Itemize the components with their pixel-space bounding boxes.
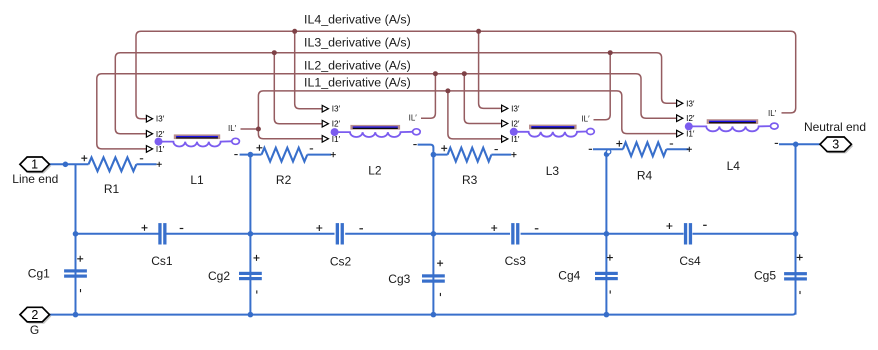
svg-text:I3′: I3′ — [332, 105, 341, 114]
pin L3 input I1 — [502, 135, 520, 144]
wire port1 to R1 — [49, 163, 89, 165]
label Cg4 + — [607, 255, 613, 261]
junction rail D top — [604, 151, 610, 157]
svg-text:Cs3: Cs3 — [505, 254, 527, 268]
pin L1 left port — [155, 138, 163, 146]
svg-text:R4: R4 — [637, 168, 653, 182]
svg-text:I1′: I1′ — [511, 135, 520, 144]
svg-text:I1′: I1′ — [332, 135, 341, 144]
junction port1/rail A — [63, 162, 69, 168]
pin L4 left terminal + — [687, 147, 692, 152]
label Cs4 - — [703, 224, 707, 226]
svg-text:Cs4: Cs4 — [679, 254, 701, 268]
svg-text:Neutral end: Neutral end — [804, 120, 866, 134]
label R1 - — [140, 158, 143, 160]
label R3 + — [441, 145, 447, 151]
wire IL1 drop to L3 input I1' — [448, 91, 502, 139]
wire rail3 to Cs3 — [433, 233, 510, 235]
junction mid/rail D — [604, 231, 610, 237]
wire IL3 drop to L2 input I2' — [274, 53, 322, 124]
svg-text:G: G — [30, 323, 39, 337]
wire IL4 drop to L3 input I3' — [479, 31, 502, 108]
pin L1 left terminal + — [157, 162, 162, 167]
svg-text:Cg3: Cg3 — [388, 272, 410, 286]
wire L1 output IL' to junction — [241, 128, 259, 130]
label Cg2 - — [256, 290, 258, 293]
junction IL4/L2 drop — [292, 29, 297, 34]
wire rail node B (R2/Cg2) — [249, 155, 251, 315]
wire rail node E (Cg5/port3) — [795, 144, 797, 314]
pin L3 input I2 — [502, 120, 520, 129]
svg-text:R1: R1 — [104, 182, 120, 196]
svg-text:I1′: I1′ — [686, 130, 695, 139]
svg-text:Cs2: Cs2 — [330, 255, 352, 269]
label L4 right - — [775, 142, 778, 144]
capacitor Cg5 — [784, 272, 807, 280]
pin L3 input I3 — [502, 104, 520, 113]
wire mid rail1 to Cs1 — [76, 233, 159, 235]
pin L2 input I3 — [322, 105, 340, 114]
label Cs3 + — [491, 225, 497, 231]
svg-text:Cg4: Cg4 — [558, 269, 580, 283]
label Cg3 - — [439, 293, 441, 296]
svg-text:I2′: I2′ — [156, 130, 165, 139]
svg-text:I3′: I3′ — [511, 104, 520, 113]
junction mid/rail C — [431, 231, 437, 237]
svg-text:Cs1: Cs1 — [151, 254, 173, 268]
port 3 (Neutral end) — [820, 137, 853, 153]
svg-text:IL3_derivative (A/s): IL3_derivative (A/s) — [304, 35, 411, 49]
svg-text:IL′: IL′ — [581, 115, 590, 124]
svg-text:IL2_derivative (A/s): IL2_derivative (A/s) — [304, 59, 411, 73]
pin L2 left terminal + — [331, 152, 336, 157]
label R4 - — [670, 143, 673, 145]
wire L3 right terminal to R4 — [593, 148, 623, 150]
junction rail C top — [431, 152, 437, 158]
label L1 right - — [234, 154, 237, 156]
wire Cs2 to rail3 — [345, 233, 433, 235]
pin L4 input I2 — [677, 114, 695, 123]
svg-text:IL4_derivative (A/s): IL4_derivative (A/s) — [304, 12, 411, 26]
label R4 + — [616, 141, 622, 147]
svg-text:L4: L4 — [727, 159, 741, 173]
capacitor Cg1 — [64, 269, 87, 277]
pin marker rail D — [606, 150, 610, 154]
junction IL2/L2 source — [433, 71, 438, 76]
svg-text:Line end: Line end — [12, 172, 58, 186]
svg-text:3: 3 — [832, 138, 839, 152]
junction gnd/rail C — [431, 312, 437, 318]
junction gnd/rail B — [248, 312, 254, 318]
junction IL1/L3 drop — [445, 88, 450, 93]
svg-text:L1: L1 — [190, 173, 204, 187]
junction gnd/rail D — [604, 312, 610, 318]
wire rail4 to Cs4 — [606, 233, 683, 235]
svg-text:I2′: I2′ — [511, 120, 520, 129]
capacitor Cs1 — [158, 223, 166, 244]
junction mid/rail E — [793, 231, 799, 237]
capacitor Cs4 — [684, 223, 692, 244]
svg-text:I2′: I2′ — [332, 120, 341, 129]
resistor R2 — [250, 148, 331, 162]
junction IL1 at L1 output — [256, 127, 261, 132]
label R2 - — [310, 148, 313, 150]
label R3 - — [495, 149, 498, 151]
svg-text:I2′: I2′ — [686, 114, 695, 123]
wire rail node A (R1/Cg1) — [75, 164, 77, 314]
label Cs2 - — [359, 228, 363, 230]
junction gnd/rail A — [73, 312, 79, 318]
wire IL1_derivative bus from L1 output to L4 input I1' — [258, 91, 676, 134]
svg-text:1: 1 — [31, 158, 38, 172]
inductor L1 — [159, 134, 240, 146]
svg-text:IL′: IL′ — [228, 124, 237, 133]
pin L3 left port — [510, 128, 518, 136]
resistor R4 — [623, 142, 689, 156]
label Cg5 - — [799, 291, 801, 294]
label Cg1 - — [80, 289, 82, 292]
resistor R1 — [89, 157, 157, 171]
label Cg1 + — [77, 256, 83, 262]
junction IL4/L3 drop — [476, 29, 481, 34]
label Cg5 + — [797, 254, 803, 260]
wire IL4 drop to L2 input I3' — [295, 31, 323, 108]
label Cs1 + — [142, 225, 148, 231]
wire ground bus — [49, 280, 795, 314]
pin L1 input I2 — [146, 130, 164, 139]
wire L2 right terminal to rail C — [418, 145, 434, 155]
junction IL2/L3 drop — [462, 71, 467, 76]
wire IL2_derivative bus to L1 input I1' — [97, 74, 677, 149]
label L2 right - — [413, 144, 416, 146]
junction IL3/L3 source — [608, 50, 613, 55]
pin L1 input I1 — [146, 145, 164, 154]
pin L3 left terminal + — [511, 152, 516, 157]
wire IL3_derivative bus to L1 input I2' — [115, 53, 676, 134]
svg-text:Cg5: Cg5 — [754, 269, 776, 283]
label Cg3 + — [437, 260, 443, 266]
capacitor Cg3 — [422, 274, 445, 282]
wire Cs1 to rail2 — [166, 233, 250, 235]
pin L4 left port — [685, 122, 693, 130]
label R2 + — [256, 145, 262, 151]
pin L4 input I1 — [677, 130, 695, 139]
junction rail B top — [248, 152, 254, 158]
wire L4 right terminal to port3 — [779, 143, 820, 145]
svg-text:Cg1: Cg1 — [28, 267, 50, 281]
pin L2 input I1 — [322, 135, 340, 144]
label Cg4 - — [609, 290, 611, 293]
svg-text:IL′: IL′ — [768, 109, 777, 118]
label Cs4 + — [666, 223, 672, 229]
svg-text:Cg2: Cg2 — [208, 269, 230, 283]
pin L4 input I3 — [677, 99, 695, 108]
resistor R3 — [433, 148, 511, 162]
port 1 (Line end) — [20, 157, 51, 173]
label R1 + — [81, 155, 87, 161]
label Cs2 + — [316, 225, 322, 231]
svg-text:IL′: IL′ — [409, 113, 418, 122]
svg-text:I3′: I3′ — [156, 115, 165, 124]
svg-text:L3: L3 — [546, 164, 560, 178]
label Cs3 - — [535, 228, 539, 230]
inductor L3 — [514, 125, 595, 137]
label Cg2 + — [254, 255, 260, 261]
wire IL1 branch to L2 input I1' — [258, 129, 322, 139]
label L3 right - — [589, 148, 592, 150]
pin L1 input I3 — [146, 115, 164, 124]
junction IL3/L2 drop — [272, 50, 277, 55]
svg-text:I3′: I3′ — [686, 99, 695, 108]
capacitor Cs2 — [336, 223, 344, 244]
wire L1 right terminal to rail B — [240, 154, 251, 156]
wire IL2 source from L2 output IL' — [421, 74, 435, 119]
junction mid/rail B — [248, 231, 254, 237]
wire rail node D (R4/Cg4) — [605, 152, 607, 315]
svg-text:R3: R3 — [462, 173, 478, 187]
label Cs1 - — [180, 228, 184, 230]
wire IL4_derivative bus to L1 input I3' — [136, 31, 796, 118]
svg-text:R2: R2 — [276, 173, 292, 187]
port 2 (G) — [20, 307, 51, 323]
junction mid/rail A — [73, 231, 79, 237]
junction rail E top — [793, 142, 799, 148]
wire IL2 drop to L3 input I2' — [464, 74, 501, 124]
wire Cs3 to rail4 — [521, 233, 607, 235]
svg-text:2: 2 — [31, 308, 38, 322]
svg-text:I1′: I1′ — [156, 145, 165, 154]
wire Cs4 to rail5 — [693, 233, 796, 235]
svg-text:L2: L2 — [368, 163, 382, 177]
capacitor Cs3 — [511, 223, 519, 244]
wire IL3 source from L3 output IL' — [594, 53, 611, 120]
pin L2 input I2 — [322, 120, 340, 129]
inductor L2 — [335, 125, 421, 137]
inductor L4 — [689, 119, 778, 131]
pin L2 left port — [331, 128, 339, 136]
wire rail2 to Cs2 — [250, 233, 334, 235]
wire rail node C (R3/Cg3) — [432, 155, 434, 315]
svg-text:IL1_derivative (A/s): IL1_derivative (A/s) — [304, 76, 411, 90]
capacitor Cg4 — [595, 272, 618, 280]
capacitor Cg2 — [239, 272, 262, 280]
